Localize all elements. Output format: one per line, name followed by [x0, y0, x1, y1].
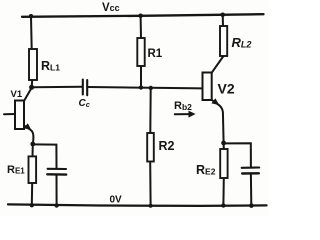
svg-text:RE1: RE1 — [7, 164, 25, 176]
resistor R2 — [147, 133, 154, 162]
svg-text:0V: 0V — [110, 194, 123, 205]
capacitor Cc right plate — [86, 80, 88, 95]
wire R1 top lead — [140, 16, 142, 38]
wire V1 emitter lead — [24, 126, 33, 144]
wire node A to CE1 — [33, 144, 57, 168]
junction dot top rail left — [29, 14, 34, 19]
wire CE2 bottom lead — [250, 175, 252, 206]
svg-text:R1: R1 — [148, 48, 163, 60]
junction dot V2 emitter node — [221, 141, 226, 146]
wire RL2 top lead — [222, 15, 224, 26]
junction dot rail R2 — [149, 204, 153, 208]
wire RL1 top lead — [30, 16, 33, 49]
wire R2 top lead — [149, 88, 151, 133]
svg-text:RL2: RL2 — [232, 35, 252, 50]
wire RE2 bottom lead — [222, 178, 224, 205]
capacitor CE2 top plate — [242, 166, 260, 168]
wire 0V bottom rail — [8, 204, 267, 206]
junction dot rail CE1 — [54, 203, 58, 207]
wire Vcc top rail — [22, 14, 264, 17]
capacitor Cc left plate — [82, 80, 84, 95]
arrowhead V1 emitter — [24, 123, 32, 130]
svg-text:R2: R2 — [159, 139, 175, 153]
wire node B to CE2 — [224, 143, 251, 166]
junction dot rail RE2 — [221, 203, 225, 207]
junction dot V1 emitter node — [30, 142, 35, 147]
wire Cc left segment — [33, 86, 82, 88]
wire V1 base stub — [4, 113, 15, 115]
svg-text:Cc: Cc — [79, 98, 91, 109]
svg-text:V2: V2 — [218, 81, 235, 97]
capacitor CE1 bottom plate — [47, 173, 66, 176]
junction dot V1 collector node — [29, 85, 34, 90]
wire V2 emitter lead — [212, 100, 224, 143]
wire R1 bottom lead — [140, 66, 142, 87]
junction dot rail CE2 — [249, 203, 254, 208]
wire R2 bottom lead — [149, 162, 151, 206]
svg-text:RL1: RL1 — [41, 59, 60, 73]
svg-text:V1: V1 — [11, 89, 23, 100]
svg-text:Rb2: Rb2 — [174, 100, 192, 112]
junction dot rail RE1 — [30, 203, 34, 207]
junction dot top rail RL2 — [220, 13, 225, 18]
arrowhead V2 emitter — [211, 98, 219, 105]
arrow Rb2 current direction — [174, 111, 196, 118]
wire Cc right to V2 base — [89, 87, 203, 88]
capacitor CE1 top plate — [48, 168, 66, 170]
transistor V2 base bar — [203, 73, 212, 101]
wire RE2 top lead — [223, 143, 225, 149]
resistor RL2 — [220, 26, 227, 56]
junction dot R2 mid wire — [149, 86, 153, 90]
resistor R1 — [137, 38, 144, 66]
wire V2 collector diagonal — [212, 56, 224, 73]
junction dot R1 mid wire — [139, 85, 143, 89]
wire RL1 bottom lead — [31, 80, 33, 86]
svg-text:Vcc: Vcc — [102, 2, 120, 14]
resistor RE1 — [29, 156, 37, 183]
wire RE1 bottom lead — [31, 183, 33, 205]
wire CE1 bottom lead — [56, 176, 58, 206]
transistor V1 base bar — [15, 101, 24, 130]
resistor RE2 — [220, 149, 227, 178]
wire V1 collector — [24, 88, 32, 101]
svg-text:RE2: RE2 — [196, 163, 216, 177]
resistor RL1 — [29, 49, 37, 80]
wire RE1 top lead — [32, 144, 34, 156]
junction dot top rail R1 — [138, 14, 143, 19]
capacitor CE2 bottom plate — [242, 172, 259, 175]
